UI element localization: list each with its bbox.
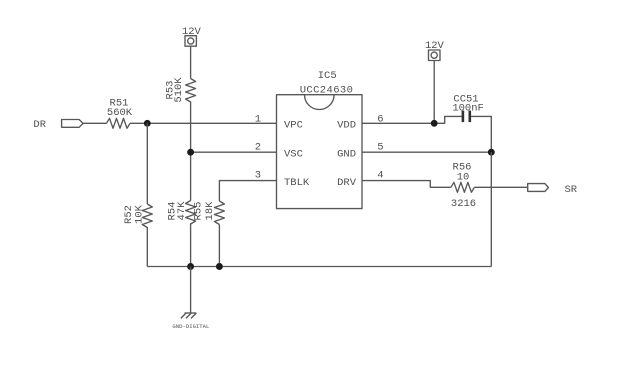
wire R55 to bottom rail — [218, 225, 220, 267]
svg-text:18K: 18K — [204, 201, 216, 221]
wire R56 to SR port — [474, 186, 527, 188]
svg-text:GND-DIGITAL: GND-DIGITAL — [172, 323, 209, 330]
svg-text:DR: DR — [33, 119, 46, 131]
svg-text:3216: 3216 — [451, 198, 476, 210]
resistor R53 510K — [165, 77, 196, 103]
node F junction dot — [216, 263, 223, 270]
port DR — [33, 119, 83, 131]
wire R52 to bottom rail — [146, 227, 148, 267]
svg-text:IC5: IC5 — [318, 70, 337, 82]
svg-text:VPC: VPC — [284, 120, 303, 132]
svg-text:TBLK: TBLK — [284, 177, 310, 189]
svg-text:1: 1 — [255, 114, 261, 126]
wire node A down to R52 — [146, 123, 148, 204]
wire GND net: IC pin 5 to right vertical — [362, 151, 491, 153]
wire DRV net: IC pin 4 to R56 — [362, 181, 451, 188]
svg-text:UCC24630: UCC24630 — [300, 85, 354, 97]
svg-text:100nF: 100nF — [452, 103, 484, 115]
wire bottom ground rail — [147, 266, 491, 268]
ground GND-DIGITAL — [172, 313, 209, 330]
svg-text:510K: 510K — [173, 77, 185, 103]
wire VPC net: R51 to IC pin 1 — [130, 122, 277, 124]
wire right vertical to bottom rail — [490, 152, 492, 266]
svg-text:10: 10 — [457, 171, 470, 183]
wire 12V to R53 — [190, 46, 192, 78]
port SR — [528, 184, 578, 196]
wire 12V to VDD net — [433, 61, 435, 124]
svg-text:560K: 560K — [107, 107, 133, 119]
wire VDD net: IC pin 6 to cap step — [362, 116, 463, 123]
node B junction dot — [187, 149, 194, 156]
resistor R55 18K — [192, 201, 224, 225]
node E junction dot — [187, 263, 194, 270]
wire VSC net: node B to IC pin 2 — [191, 151, 277, 153]
node A junction dot — [144, 120, 151, 127]
svg-text:10K: 10K — [134, 204, 146, 224]
svg-text:SR: SR — [564, 184, 577, 196]
svg-text:5: 5 — [377, 141, 383, 153]
resistor R56 10 3216 — [451, 162, 476, 210]
wire ground stem — [190, 267, 192, 313]
supply 12V (right) — [425, 40, 445, 61]
wire R54 to bottom rail — [190, 224, 192, 267]
op-amp IC5 UCC24630 body — [277, 70, 363, 208]
svg-text:2: 2 — [255, 141, 261, 153]
node C junction dot — [431, 120, 438, 127]
svg-text:R55: R55 — [192, 202, 204, 221]
wire R53 down through node B to R54 — [190, 102, 192, 201]
supply 12V (left) — [182, 26, 202, 46]
wire DR to R51 — [83, 122, 106, 124]
svg-text:DRV: DRV — [337, 177, 357, 189]
resistor R51 560K — [107, 98, 133, 129]
wire TBLK net: IC pin 3 to corner — [219, 181, 276, 201]
svg-text:GND: GND — [337, 149, 356, 161]
svg-text:47K: 47K — [176, 201, 188, 221]
node D junction dot — [488, 149, 495, 156]
resistor R54 47K — [166, 201, 195, 225]
svg-text:VSC: VSC — [284, 149, 303, 161]
svg-text:4: 4 — [377, 170, 383, 182]
svg-text:VDD: VDD — [337, 120, 356, 132]
wire cap right to GND net corner — [471, 116, 491, 152]
resistor R52 10K — [123, 204, 152, 228]
svg-text:3: 3 — [255, 170, 261, 182]
capacitor CC51 100nF — [452, 94, 484, 123]
